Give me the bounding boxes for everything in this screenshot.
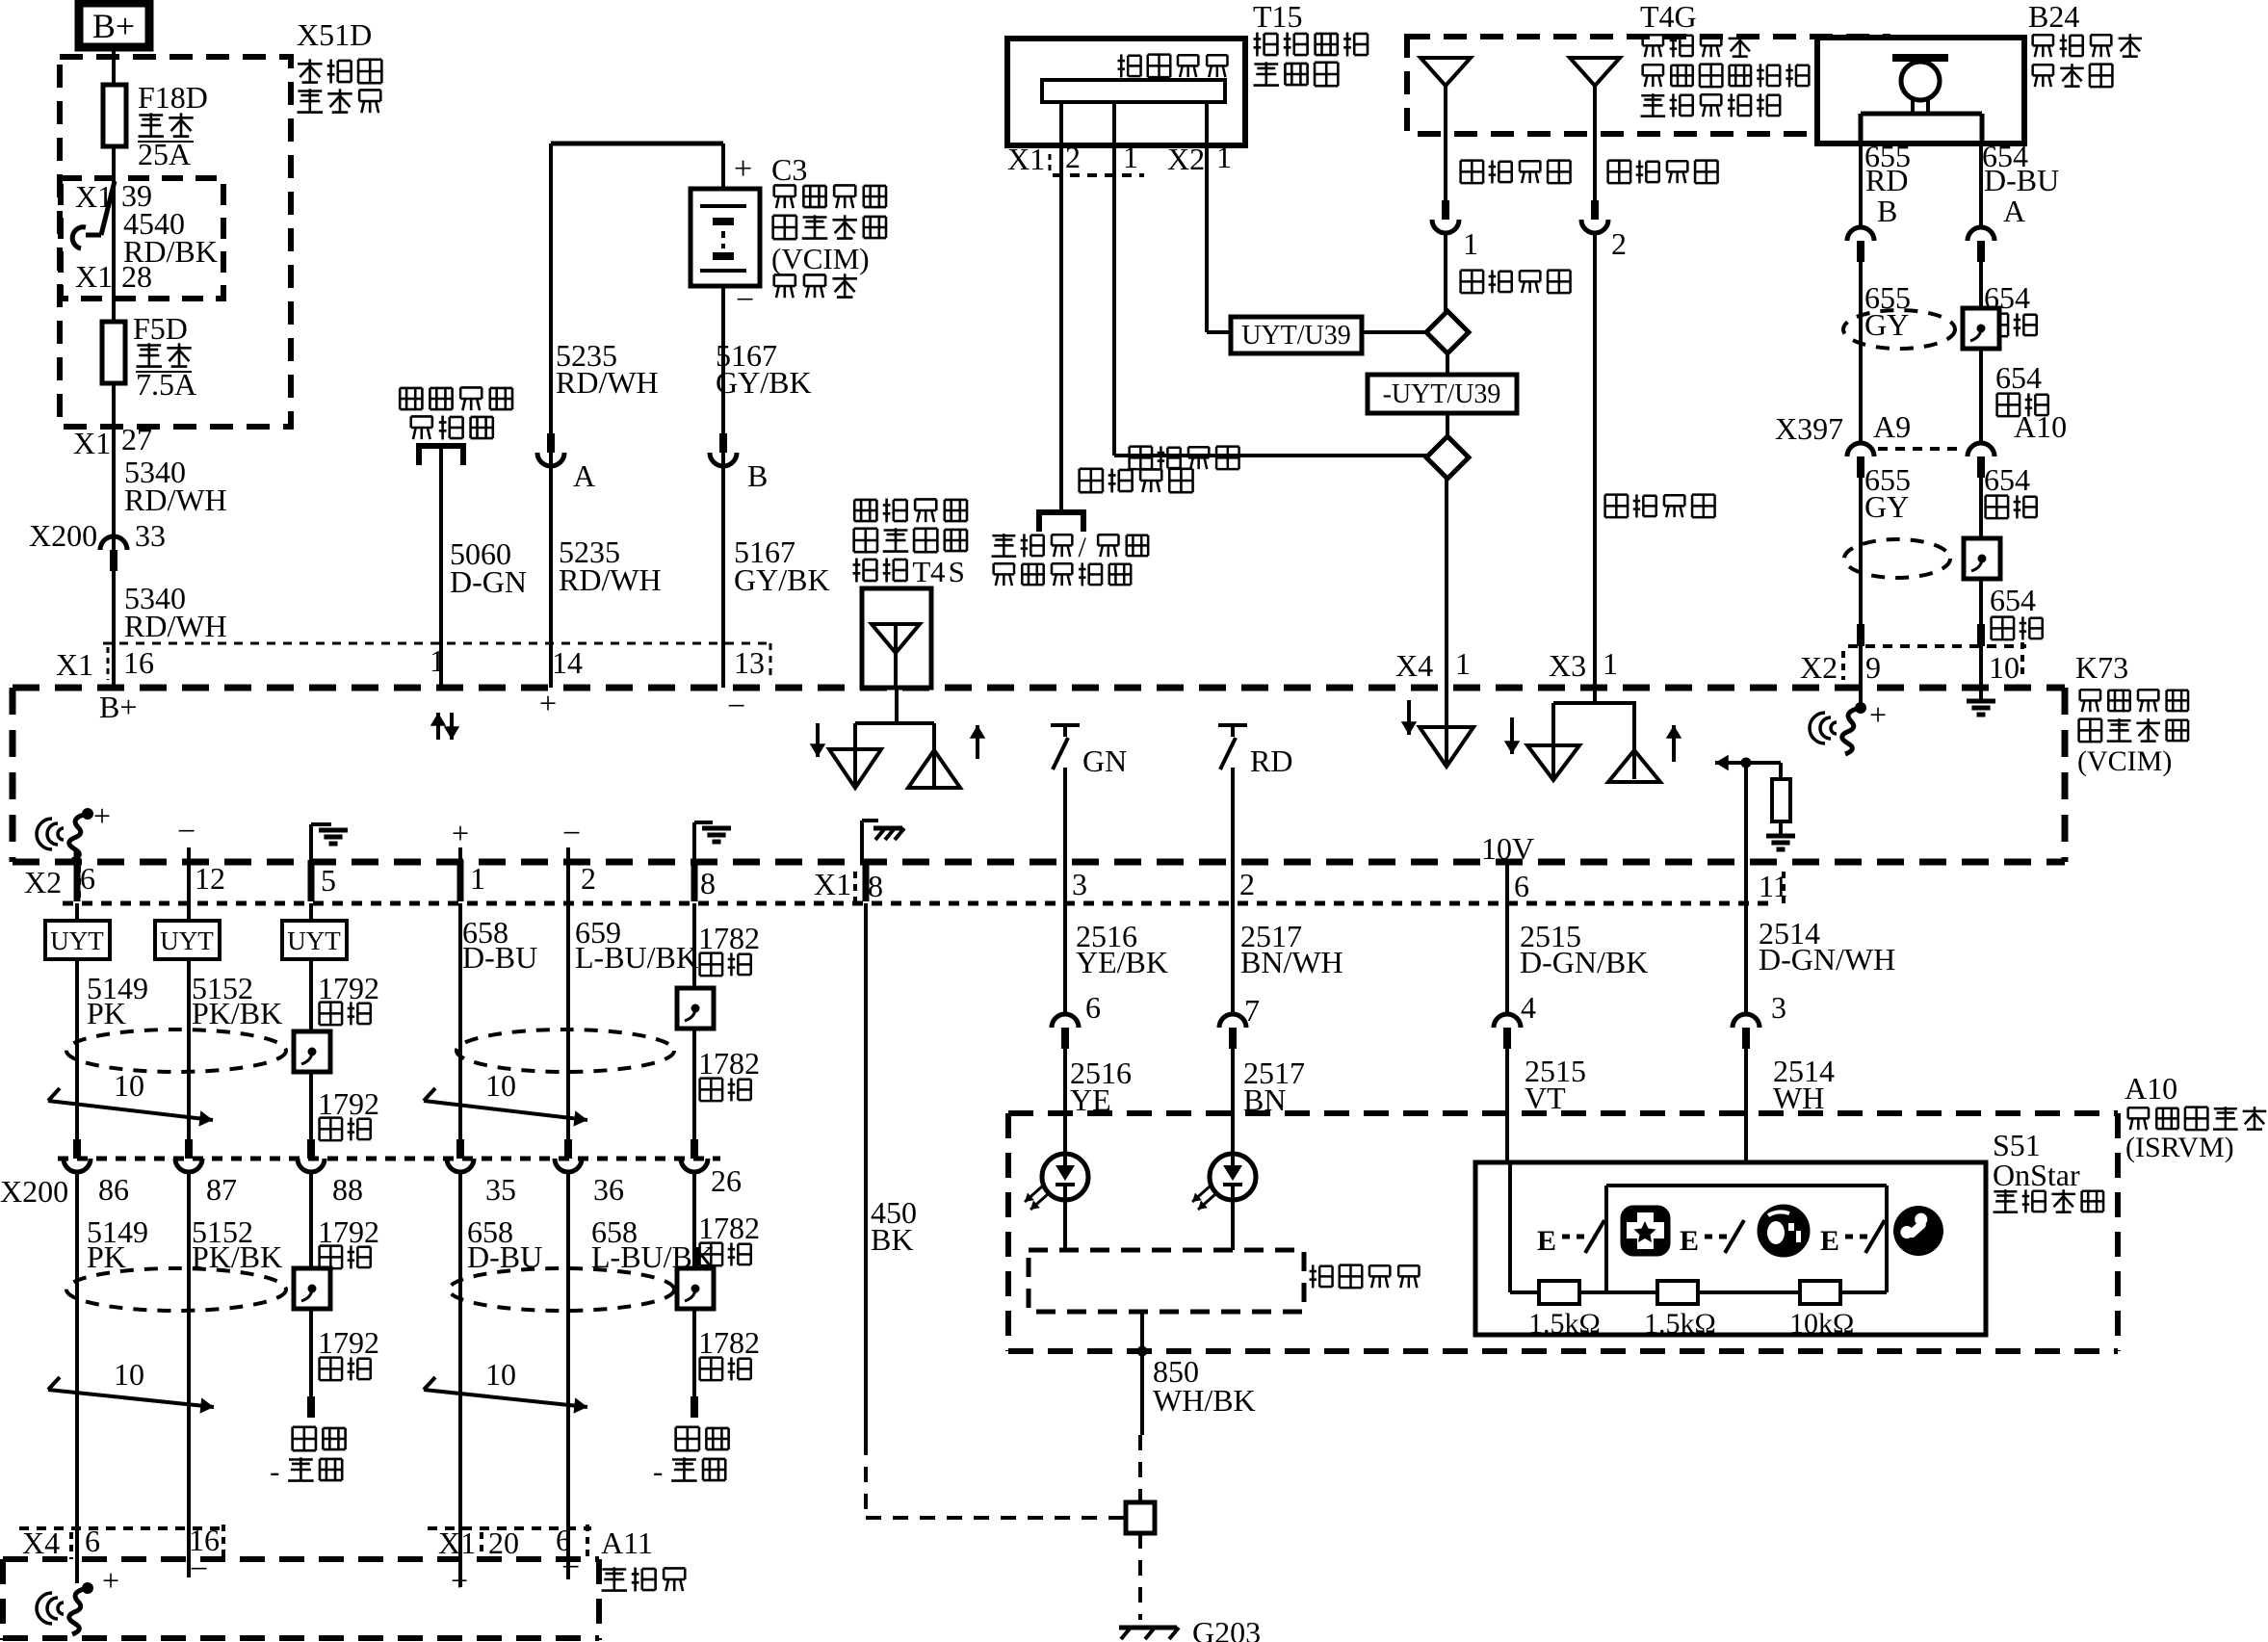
svg-text:X4: X4 xyxy=(22,1525,60,1560)
svg-text:E: E xyxy=(1537,1225,1556,1257)
svg-text:+: + xyxy=(452,816,469,850)
svg-text:X1: X1 xyxy=(73,426,111,460)
svg-text:(ISRVM): (ISRVM) xyxy=(2125,1132,2234,1163)
svg-text:A: A xyxy=(573,458,595,493)
svg-text:T4G: T4G xyxy=(1640,0,1697,34)
svg-text:35: 35 xyxy=(485,1172,516,1207)
svg-text:1792: 1792 xyxy=(318,1086,379,1121)
svg-text:1782: 1782 xyxy=(698,1046,760,1081)
svg-text:26: 26 xyxy=(711,1163,742,1198)
svg-text:A: A xyxy=(2003,194,2025,228)
svg-text:−: − xyxy=(562,816,581,851)
svg-text:20: 20 xyxy=(488,1525,519,1560)
svg-text:RD/WH: RD/WH xyxy=(124,482,227,517)
svg-text:1792: 1792 xyxy=(318,971,379,1005)
svg-text:X1: X1 xyxy=(438,1525,476,1560)
svg-text:12: 12 xyxy=(195,861,225,896)
svg-text:X2: X2 xyxy=(1167,142,1205,176)
svg-text:PK: PK xyxy=(87,1239,126,1274)
svg-text:T: T xyxy=(912,555,930,588)
svg-text:7: 7 xyxy=(1244,993,1260,1028)
svg-text:PK/BK: PK/BK xyxy=(192,996,282,1030)
svg-text:10: 10 xyxy=(1989,650,2020,685)
svg-text:GN: GN xyxy=(1082,743,1127,778)
svg-text:−: − xyxy=(190,1551,208,1587)
svg-text:GY/BK: GY/BK xyxy=(734,562,830,597)
svg-text:27: 27 xyxy=(121,422,152,456)
svg-text:1: 1 xyxy=(1216,140,1232,174)
svg-text:X200: X200 xyxy=(0,1174,68,1209)
svg-text:D-BU: D-BU xyxy=(462,940,537,975)
svg-text:D-GN/WH: D-GN/WH xyxy=(1759,942,1895,977)
svg-text:PK: PK xyxy=(87,996,126,1030)
svg-text:B24: B24 xyxy=(2028,0,2079,34)
svg-text:1782: 1782 xyxy=(698,921,760,955)
svg-text:D-GN: D-GN xyxy=(450,564,527,599)
svg-text:1: 1 xyxy=(1455,646,1471,681)
svg-text:654: 654 xyxy=(1990,583,2036,617)
svg-text:OnStar: OnStar xyxy=(1993,1158,2080,1192)
svg-text:−: − xyxy=(736,282,754,318)
svg-text:10kΩ: 10kΩ xyxy=(1789,1308,1854,1340)
svg-text:G203: G203 xyxy=(1192,1615,1261,1642)
svg-text:+: + xyxy=(539,686,557,720)
svg-text:-: - xyxy=(270,1454,279,1488)
svg-text:X1: X1 xyxy=(75,259,113,294)
svg-text:VT: VT xyxy=(1525,1081,1566,1115)
svg-text:1.5kΩ: 1.5kΩ xyxy=(1528,1308,1601,1340)
svg-text:4: 4 xyxy=(1521,990,1536,1025)
svg-text:1: 1 xyxy=(430,643,445,678)
svg-text:+: + xyxy=(93,798,111,833)
svg-text:+: + xyxy=(451,1563,468,1598)
svg-text:-: - xyxy=(653,1454,663,1488)
svg-text:WH/BK: WH/BK xyxy=(1153,1383,1256,1418)
svg-text:25A: 25A xyxy=(138,137,191,171)
svg-text:GY/BK: GY/BK xyxy=(716,365,812,400)
svg-text:2: 2 xyxy=(1065,140,1081,174)
svg-text:X1: X1 xyxy=(814,867,851,901)
svg-text:YE/BK: YE/BK xyxy=(1076,945,1168,979)
svg-text:1792: 1792 xyxy=(318,1325,379,1360)
svg-text:654: 654 xyxy=(1995,360,2042,395)
svg-text:2: 2 xyxy=(1239,867,1255,901)
svg-text:+: + xyxy=(102,1563,119,1598)
svg-text:33: 33 xyxy=(135,518,166,553)
svg-text:9: 9 xyxy=(1865,650,1881,685)
svg-text:1.5kΩ: 1.5kΩ xyxy=(1644,1308,1716,1340)
svg-text:3: 3 xyxy=(1072,867,1087,901)
svg-text:(VCIM): (VCIM) xyxy=(2077,745,2172,777)
svg-text:X2: X2 xyxy=(1800,650,1838,685)
svg-text:-UYT/U39: -UYT/U39 xyxy=(1383,379,1501,409)
svg-text:B: B xyxy=(747,458,768,493)
svg-text:A10: A10 xyxy=(2014,409,2067,444)
svg-text:8: 8 xyxy=(700,866,716,900)
svg-text:8: 8 xyxy=(868,869,883,903)
svg-text:RD: RD xyxy=(1865,163,1908,197)
svg-text:−: − xyxy=(177,814,196,849)
svg-text:B+: B+ xyxy=(92,7,135,45)
svg-text:10: 10 xyxy=(114,1068,144,1103)
svg-text:11: 11 xyxy=(1759,869,1788,903)
svg-text:X1: X1 xyxy=(75,179,113,214)
svg-text:2: 2 xyxy=(1611,226,1627,261)
svg-text:+: + xyxy=(734,151,752,187)
svg-text:2: 2 xyxy=(581,861,596,896)
svg-text:1: 1 xyxy=(1603,646,1618,681)
svg-text:X200: X200 xyxy=(29,518,97,553)
svg-text:1: 1 xyxy=(470,861,485,896)
svg-text:5: 5 xyxy=(321,863,336,898)
svg-text:A9: A9 xyxy=(1873,409,1911,444)
svg-text:RD/WH: RD/WH xyxy=(556,365,659,400)
svg-text:654: 654 xyxy=(1984,462,2030,497)
svg-text:16: 16 xyxy=(123,645,154,680)
svg-text:F18D: F18D xyxy=(138,80,208,115)
svg-text:GY: GY xyxy=(1864,489,1909,524)
svg-text:10: 10 xyxy=(485,1068,516,1103)
svg-text:10: 10 xyxy=(485,1357,516,1392)
svg-text:D-BU: D-BU xyxy=(1984,163,2059,197)
svg-text:UYT: UYT xyxy=(287,926,341,955)
svg-text:L-BU/BK: L-BU/BK xyxy=(575,940,698,975)
svg-text:10V: 10V xyxy=(1481,831,1534,866)
svg-text:X3: X3 xyxy=(1549,648,1586,683)
svg-text:RD: RD xyxy=(1250,743,1292,778)
svg-text:4: 4 xyxy=(930,555,946,588)
svg-text:86: 86 xyxy=(98,1172,129,1207)
svg-text:13: 13 xyxy=(734,645,765,680)
svg-text:+: + xyxy=(1869,697,1887,732)
svg-text:UYT: UYT xyxy=(160,926,214,955)
svg-text:UYT: UYT xyxy=(50,926,104,955)
svg-text:36: 36 xyxy=(593,1172,624,1207)
svg-text:6: 6 xyxy=(1514,869,1529,903)
svg-text:6: 6 xyxy=(1085,990,1101,1025)
svg-text:BN/WH: BN/WH xyxy=(1240,945,1343,979)
svg-text:UYT/U39: UYT/U39 xyxy=(1241,321,1351,351)
svg-text:F5D: F5D xyxy=(133,311,188,346)
svg-text:BK: BK xyxy=(871,1222,913,1257)
svg-text:YE: YE xyxy=(1070,1082,1111,1117)
svg-text:1: 1 xyxy=(1123,140,1138,174)
svg-text:(VCIM): (VCIM) xyxy=(771,242,870,275)
svg-text:A10: A10 xyxy=(2125,1071,2177,1106)
svg-text:1782: 1782 xyxy=(698,1325,760,1360)
svg-text:3: 3 xyxy=(1771,990,1786,1025)
svg-text:WH: WH xyxy=(1773,1081,1824,1115)
svg-text:E: E xyxy=(1820,1225,1839,1257)
svg-text:RD/WH: RD/WH xyxy=(124,609,227,643)
svg-text:X1: X1 xyxy=(1007,142,1045,176)
svg-text:E: E xyxy=(1680,1225,1699,1257)
svg-text:S: S xyxy=(949,555,965,588)
svg-text:87: 87 xyxy=(206,1172,237,1207)
svg-text:L-BU/BK: L-BU/BK xyxy=(591,1239,715,1274)
svg-text:10: 10 xyxy=(114,1357,144,1392)
svg-text:14: 14 xyxy=(552,645,583,680)
svg-text:RD/WH: RD/WH xyxy=(559,562,662,597)
svg-text:/: / xyxy=(1078,532,1086,563)
svg-text:K73: K73 xyxy=(2075,650,2128,685)
svg-text:88: 88 xyxy=(332,1172,363,1207)
svg-text:1792: 1792 xyxy=(318,1214,379,1249)
svg-text:A11: A11 xyxy=(601,1525,653,1560)
svg-text:28: 28 xyxy=(121,259,152,294)
svg-text:6: 6 xyxy=(85,1524,100,1558)
svg-text:X4: X4 xyxy=(1395,648,1433,683)
svg-text:D-GN/BK: D-GN/BK xyxy=(1520,945,1648,979)
svg-text:7.5A: 7.5A xyxy=(136,367,196,402)
svg-text:X1: X1 xyxy=(56,647,93,682)
svg-text:B+: B+ xyxy=(99,690,137,724)
svg-text:1: 1 xyxy=(1463,226,1478,261)
svg-text:X2: X2 xyxy=(24,865,62,899)
svg-text:X397: X397 xyxy=(1775,411,1843,446)
svg-text:T15: T15 xyxy=(1253,0,1303,34)
svg-text:BN: BN xyxy=(1243,1082,1286,1117)
svg-text:C3: C3 xyxy=(771,152,807,187)
svg-text:−: − xyxy=(727,689,745,724)
svg-text:6: 6 xyxy=(80,861,95,896)
svg-text:−: − xyxy=(561,1550,580,1585)
svg-text:B: B xyxy=(1877,194,1897,228)
svg-text:X51D: X51D xyxy=(297,17,372,52)
